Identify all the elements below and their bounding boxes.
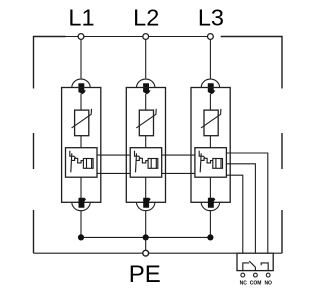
- signalling wire module 1 to module 2 (lower): [97, 172, 130, 174]
- thermal disconnector symbol hook of module 2: [135, 151, 141, 158]
- module 3 plug-in contact arrow (bottom, filled): [208, 198, 216, 208]
- top conductor bus L1-L2-L3: [34, 36, 213, 38]
- wire from terminal L1 down to module 1 plug-in connection: [80, 39, 82, 78]
- varistor MOV3 body: [204, 110, 218, 136]
- module 2 outline box: [126, 88, 165, 203]
- module 1 plug-in contact arrow (top, filled): [78, 83, 86, 94]
- signalling wire to COM terminal: [226, 164, 256, 253]
- wire arrow to varistor MOV2: [145, 94, 147, 110]
- svg-text:COM: COM: [250, 280, 262, 286]
- indicator rectangle of module 2: [148, 159, 158, 169]
- thermal disconnector meander of module 2: [136, 158, 148, 163]
- thermal disconnector / monitoring box of module 1: [66, 148, 98, 178]
- enclosure border bottom line (right of signal contact box): [273, 252, 282, 254]
- svg-text:NO: NO: [264, 280, 272, 286]
- indicator rectangle of module 3: [213, 159, 223, 169]
- changeover contact COM stem: [254, 267, 256, 270]
- indicator inner divider 1 of module 2: [150, 159, 152, 169]
- thermal disconnector / monitoring box of module 2: [130, 148, 162, 178]
- wire from terminal L3 down to module 3 plug-in connection: [209, 39, 211, 78]
- module 3 plug-in contact arrow (top, filled): [208, 83, 216, 94]
- thermal disconnector meander of module 3: [201, 158, 213, 163]
- varistor MOV2 diagonal stroke: [136, 109, 156, 128]
- signalling wire to NC terminal: [226, 175, 243, 253]
- changeover contact NC fixed contact: [243, 263, 249, 271]
- junction dot module 1 / PE bus: [78, 234, 84, 240]
- thermal disconnector blade of module 2: [136, 153, 137, 172]
- indicator inner divider 2 of module 2: [155, 159, 157, 169]
- enclosure border top-left corner (dashed boundary, solid piece): [34, 37, 66, 89]
- changeover contact NO fixed contact: [261, 263, 268, 271]
- signalling wire module 2 to module 3 (lower): [162, 172, 195, 174]
- terminal L2: [143, 34, 149, 40]
- module 3 plug-in disconnect arc (top): [201, 79, 219, 87]
- wire varistor MOV1 to thermal disconnector: [80, 136, 82, 148]
- changeover contact blade: [249, 261, 255, 267]
- indicator inner divider 2 of module 1: [91, 159, 93, 169]
- enclosure border bottom line (left of signal contact box): [34, 252, 238, 254]
- module 2 plug-in disconnect arc (top): [137, 79, 155, 87]
- module 2 plug-in contact arrow (top, filled): [143, 83, 151, 94]
- indicator rectangle of module 1: [83, 159, 93, 169]
- enclosure border top-right corner piece: [221, 37, 282, 89]
- thermal disconnector / monitoring box of module 3: [195, 148, 227, 178]
- module 1 plug-in disconnect arc (bottom): [72, 202, 90, 210]
- remote signalling contact box: [237, 253, 273, 270]
- wire thermal disconnector to bottom contact of module 1: [80, 177, 82, 202]
- thermal disconnector blade of module 1: [71, 153, 72, 172]
- module 1 outline box: [62, 88, 101, 203]
- svg-text:L3: L3: [198, 5, 224, 31]
- module 2 plug-in disconnect arc (bottom): [137, 202, 155, 210]
- svg-text:L1: L1: [68, 5, 94, 31]
- wire module 2 to PE bus: [145, 211, 147, 238]
- wire PE bus to PE terminal: [145, 237, 147, 250]
- varistor MOV2 body: [139, 110, 153, 136]
- terminal PE: [143, 250, 149, 256]
- varistor MOV1 diagonal stroke: [72, 109, 92, 128]
- wire from terminal L2 down to module 2 plug-in connection: [145, 39, 147, 78]
- indicator inner divider 2 of module 3: [220, 159, 222, 169]
- signalling wire to NO terminal: [226, 153, 268, 253]
- module 3 plug-in disconnect arc (bottom): [201, 202, 219, 210]
- terminal L3: [208, 34, 214, 40]
- PE bus wire: [81, 236, 210, 238]
- wire thermal disconnector to bottom contact of module 3: [209, 177, 211, 202]
- wire varistor MOV3 to thermal disconnector: [209, 136, 211, 148]
- module 3 outline box: [191, 88, 230, 203]
- module 1 plug-in contact arrow (bottom, filled): [79, 198, 87, 208]
- thermal disconnector blade of module 3: [200, 153, 201, 172]
- junction dot module 2 / PE bus: [143, 234, 149, 240]
- terminal COM: [254, 273, 258, 277]
- signalling wire module 1 to module 2 (upper): [97, 154, 130, 156]
- terminal L1: [78, 34, 84, 40]
- svg-text:L2: L2: [133, 5, 159, 31]
- indicator inner divider 1 of module 1: [86, 159, 88, 169]
- thermal disconnector meander of module 1: [71, 158, 83, 163]
- signalling wire module 2 to module 3 (upper): [162, 154, 195, 156]
- terminal NO: [266, 273, 270, 277]
- wire arrow to varistor MOV1: [80, 94, 82, 110]
- wire arrow to varistor MOV3: [209, 94, 211, 110]
- svg-text:PE: PE: [129, 261, 161, 288]
- varistor MOV1 body: [75, 110, 89, 136]
- module 1 plug-in disconnect arc (top): [72, 79, 90, 87]
- wire thermal disconnector to bottom contact of module 2: [145, 177, 147, 202]
- indicator inner divider 1 of module 3: [215, 159, 217, 169]
- thermal disconnector symbol hook of module 1: [70, 151, 76, 158]
- wire module 3 to PE bus: [209, 211, 211, 238]
- enclosure border left bottom dash: [33, 210, 35, 253]
- enclosure border right bottom dash: [281, 210, 283, 253]
- terminal NC: [241, 273, 245, 277]
- module 2 plug-in contact arrow (bottom, filled): [143, 198, 151, 208]
- enclosure border left middle dash: [33, 133, 35, 169]
- svg-text:NC: NC: [240, 280, 248, 286]
- junction dot module 3 / PE bus: [207, 234, 213, 240]
- wire varistor MOV2 to thermal disconnector: [145, 136, 147, 148]
- wire module 1 to PE bus: [80, 211, 82, 238]
- varistor MOV3 diagonal stroke: [201, 109, 221, 128]
- thermal disconnector symbol hook of module 3: [199, 151, 205, 158]
- enclosure border right middle dash: [281, 133, 283, 169]
